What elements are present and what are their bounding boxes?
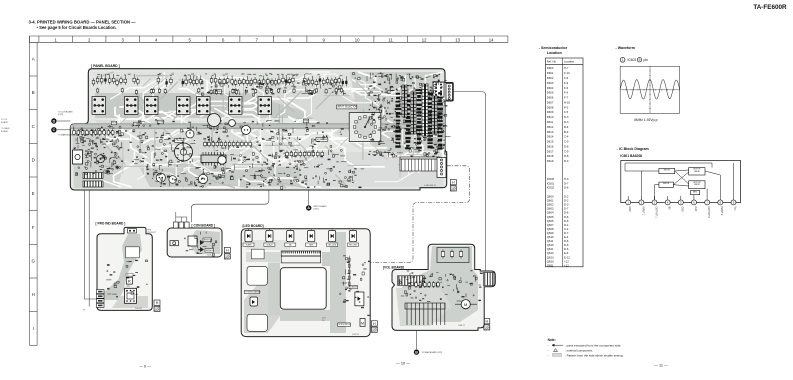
- svg-text:D602: D602: [547, 76, 554, 80]
- row ruler A-I: [29, 36, 37, 345]
- svg-text:D613: D613: [547, 130, 554, 134]
- relay RY651: [125, 288, 137, 303]
- svg-text:D-4: D-4: [564, 223, 569, 227]
- svg-text:Q620: Q620: [547, 243, 554, 247]
- svg-text:D-3: D-3: [564, 120, 569, 124]
- svg-text:C: C: [53, 128, 56, 132]
- svg-text:F: F: [32, 225, 35, 230]
- svg-text:H-10: H-10: [564, 100, 570, 104]
- svg-text:8: 8: [289, 37, 292, 42]
- svg-text:D-7: D-7: [564, 207, 569, 211]
- led D675 REC LINE: [327, 229, 338, 247]
- label sensor: [205, 249, 214, 253]
- svg-text:D604: D604: [547, 86, 554, 90]
- svg-text:TUNER: TUNER: [246, 245, 253, 247]
- svg-text:2: 2: [88, 37, 91, 42]
- ic array column 1: [402, 85, 407, 117]
- vol comb connector: [405, 303, 445, 325]
- svg-text:Q611: Q611: [547, 239, 554, 243]
- svg-text:SW DR: SW DR: [663, 183, 670, 185]
- led D674 TAPE: [306, 229, 317, 247]
- svg-text:- Waveform: - Waveform: [616, 46, 635, 50]
- svg-text:Note:: Note:: [548, 338, 556, 342]
- label SPEAKERS: [316, 138, 328, 142]
- svg-text:[VOL BOARD]: [VOL BOARD]: [383, 265, 404, 269]
- svg-text:P-3: P-3: [564, 105, 569, 109]
- ic array column 2: [411, 92, 416, 134]
- svg-text:Q604: Q604: [547, 211, 554, 215]
- svg-text:B: B: [32, 90, 35, 95]
- svg-text:D-3: D-3: [564, 115, 569, 119]
- svg-text:9: 9: [322, 37, 325, 42]
- led D678 timer: [355, 292, 364, 306]
- label S601: [112, 121, 117, 125]
- svg-text:D-3: D-3: [564, 203, 569, 207]
- node C (to main board): [51, 127, 56, 132]
- svg-text:Q623: Q623: [547, 255, 554, 259]
- svg-text:D614: D614: [547, 135, 554, 139]
- svg-text:IC602: IC602: [547, 186, 555, 190]
- svg-text:4: 4: [155, 37, 158, 42]
- transistor Q601: [97, 155, 105, 163]
- con board copper pattern: [188, 230, 220, 254]
- ic block diagram U-IC601: [621, 161, 741, 219]
- svg-text:E: E: [32, 191, 35, 196]
- electrolytic C612: [218, 156, 226, 164]
- svg-text:M: M: [361, 322, 364, 326]
- capacitor row 2: [97, 88, 343, 96]
- svg-text:I: I: [33, 326, 34, 331]
- svg-text:Q610: Q610: [547, 235, 554, 239]
- svg-text:TO MAIN BOARD: TO MAIN BOARD: [58, 134, 74, 137]
- transistor Q603: [156, 173, 165, 182]
- svg-text:D-8: D-8: [564, 154, 569, 158]
- right dense column cluster: [368, 75, 450, 158]
- panel board copper pattern: [72, 72, 445, 188]
- svg-text:REC LINE: REC LINE: [328, 245, 337, 247]
- svg-text:: parts extracted from the com: : parts extracted from the component sid…: [565, 343, 621, 347]
- top right cluster: [353, 73, 441, 82]
- led D677 power: [250, 297, 258, 306]
- svg-text:-: -: [548, 349, 549, 353]
- resistor row R601-R660: [92, 74, 347, 87]
- svg-text:TO CN: TO CN: [1, 119, 8, 121]
- led D673 MD: [285, 229, 296, 247]
- pro ind small parts: [106, 260, 148, 298]
- label S602: [134, 122, 140, 126]
- transistor Q605: [198, 174, 207, 183]
- led board copper pattern: [244, 232, 346, 333]
- svg-text:7: 7: [255, 37, 258, 42]
- svg-text:[LED BOARD]: [LED BOARD]: [243, 224, 264, 228]
- svg-text:F-9: F-9: [564, 81, 569, 85]
- svg-text:Q606: Q606: [547, 219, 554, 223]
- svg-text:F-6: F-6: [564, 86, 569, 90]
- svg-text:5: 5: [188, 37, 191, 42]
- connector CN606 vertical: [400, 157, 440, 171]
- svg-text:DRIVE: DRIVE: [694, 184, 701, 186]
- svg-text:D603: D603: [547, 81, 554, 85]
- svg-text:INPUT BOARD: INPUT BOARD: [314, 205, 328, 208]
- resistor cluster center: [204, 141, 252, 148]
- svg-text:6: 6: [222, 37, 225, 42]
- svg-text:H: H: [32, 292, 35, 297]
- svg-text:Q650: Q650: [547, 259, 554, 263]
- connector CN604: [83, 181, 103, 187]
- svg-text:(CN?): (CN?): [314, 209, 319, 211]
- pro ind board outline: [97, 227, 152, 310]
- pro ind copper pattern: [104, 234, 148, 308]
- panel board outline: [70, 69, 453, 190]
- svg-text:— 11 —: — 11 —: [654, 364, 668, 368]
- marker H vol board: [484, 319, 490, 324]
- svg-text:[ CON BOARD ]: [ CON BOARD ]: [192, 223, 216, 227]
- con board speckles: [184, 232, 217, 257]
- label PHONES: [175, 139, 184, 143]
- transistor Q606: [208, 114, 221, 127]
- svg-text:B-9: B-9: [564, 125, 569, 129]
- jack J601: [73, 150, 83, 164]
- svg-text:SPK MONITOR: SPK MONITOR: [339, 324, 352, 326]
- svg-text:C-9: C-9: [564, 140, 569, 144]
- svg-text:D618: D618: [547, 154, 554, 158]
- transistor Q604: [169, 176, 177, 184]
- wire panel to PRO IND (1): [84, 190, 96, 299]
- svg-text:Q621: Q621: [547, 247, 554, 251]
- svg-text:D-6: D-6: [564, 219, 569, 223]
- svg-text:1: 1: [54, 37, 57, 42]
- photo coupler IC651: [126, 277, 132, 284]
- switch S605: [197, 97, 211, 115]
- svg-text:1-681-11: 1-681-11: [458, 325, 465, 327]
- wire panel to PRO IND (2): [88, 190, 90, 307]
- svg-text:-: -: [548, 343, 549, 347]
- switch S606: [229, 97, 243, 115]
- svg-text:D-7: D-7: [564, 231, 569, 235]
- svg-text:3-4. PRINTED WIRING BOARD — PA: 3-4. PRINTED WIRING BOARD — PANEL SECTIO…: [29, 20, 137, 25]
- switch S603: [145, 97, 159, 115]
- label IC651: [126, 274, 133, 277]
- svg-text:INPUT SELECTOR: INPUT SELECTOR: [337, 107, 357, 109]
- node A (input board): [308, 190, 310, 205]
- svg-text:D-6: D-6: [564, 215, 569, 219]
- svg-text:E-4: E-4: [564, 235, 569, 239]
- svg-text:Q601: Q601: [547, 199, 554, 203]
- svg-text:D619: D619: [547, 159, 554, 163]
- svg-text:F-6: F-6: [564, 91, 569, 95]
- bottom component cluster: [147, 167, 365, 189]
- motor M681: [461, 300, 470, 309]
- svg-text:: internal component.: : internal component.: [565, 349, 593, 353]
- bus trace band: [71, 124, 446, 129]
- svg-text:IC602: IC602: [628, 58, 637, 62]
- svg-text:DRIVE: DRIVE: [694, 171, 701, 173]
- svg-text:OUTPUT 1: OUTPUT 1: [654, 207, 656, 219]
- svg-text:H: H: [452, 181, 455, 185]
- pro ind hole: [126, 247, 140, 258]
- svg-text:pin: pin: [644, 58, 649, 62]
- con board center parts: [188, 236, 197, 246]
- svg-text:D-7: D-7: [564, 181, 569, 185]
- ic M672: [360, 319, 365, 327]
- svg-text:M: M: [464, 302, 467, 307]
- svg-text:F-9: F-9: [564, 76, 569, 80]
- switch S602: [125, 97, 139, 115]
- label INPUT SELECTOR: [337, 105, 357, 109]
- svg-text:MUT: MUT: [112, 123, 117, 125]
- svg-text:9: 9: [639, 58, 641, 62]
- wire node D to board: [57, 120, 70, 122]
- svg-text:BOARD: BOARD: [1, 121, 9, 124]
- vol connector CN681: [397, 276, 424, 286]
- lcd window: [280, 268, 326, 310]
- svg-text:C-4: C-4: [564, 135, 569, 139]
- svg-text:E-12: E-12: [564, 255, 570, 259]
- svg-text:SENSOR: SENSOR: [206, 250, 215, 252]
- svg-text:D612: D612: [547, 125, 554, 129]
- svg-text:Q603: Q603: [547, 207, 554, 211]
- svg-text:4MHz 1.92Vp-p: 4MHz 1.92Vp-p: [634, 118, 658, 122]
- wire VOL board to node B: [416, 330, 418, 349]
- svg-text:I-12: I-12: [564, 259, 569, 263]
- vol resistor row: [415, 281, 440, 288]
- svg-text:1-4: 1-4: [322, 320, 324, 322]
- led hole 3: [247, 314, 268, 331]
- svg-text:REC LINE: REC LINE: [349, 245, 358, 247]
- svg-text:H: H: [373, 322, 376, 326]
- connector CN605: [446, 84, 453, 101]
- svg-text:REMOTE: REMOTE: [204, 239, 213, 241]
- svg-text:D610: D610: [547, 115, 554, 119]
- vol speckles: [399, 270, 483, 302]
- lcd connector CN672: [281, 251, 320, 256]
- rotary switch S610 input selector: [349, 113, 381, 142]
- svg-text:H: H: [226, 249, 229, 253]
- led hole 1: [251, 249, 264, 259]
- svg-text:F-10: F-10: [564, 71, 570, 75]
- svg-text:13: 13: [455, 37, 460, 42]
- connector CN607: [437, 158, 446, 178]
- svg-text:R: R: [128, 279, 131, 284]
- svg-text:Vcc: Vcc: [733, 207, 735, 212]
- svg-text:F-7: F-7: [564, 96, 569, 100]
- svg-text:Q605: Q605: [547, 215, 554, 219]
- volume pot RV601: [175, 143, 193, 161]
- svg-text:SW DR: SW DR: [664, 170, 671, 172]
- svg-text:D-3: D-3: [564, 159, 569, 163]
- svg-text:14: 14: [489, 37, 494, 42]
- top mid sparse cluster: [201, 80, 346, 96]
- semiconductor location table: [546, 58, 584, 267]
- ic IC603: [201, 155, 226, 163]
- led D672 CD/AUX: [264, 229, 275, 247]
- switch S607: [258, 97, 272, 115]
- label POWER: [304, 119, 309, 123]
- svg-text:1-651-37: 1-651-37: [135, 308, 142, 310]
- led D671 TUNER: [243, 229, 254, 247]
- svg-text:D601: D601: [547, 71, 554, 75]
- svg-text:10: 10: [355, 37, 360, 42]
- switch S601: [92, 97, 106, 115]
- component reference labels row: [97, 73, 342, 76]
- svg-text:1: 1: [622, 58, 624, 62]
- svg-text:H-7: H-7: [564, 66, 569, 70]
- waveform graph IC602 pin9: [620, 66, 679, 113]
- ic column block right: [395, 89, 443, 149]
- svg-text:D-2: D-2: [564, 199, 569, 203]
- led board speckles: [340, 255, 371, 316]
- svg-text:H-3: H-3: [564, 177, 569, 181]
- ir sensor IC671: [170, 241, 178, 246]
- capacitor row mid: [286, 151, 324, 158]
- svg-text:D: D: [53, 119, 56, 123]
- svg-text:[ PANEL BOARD ]: [ PANEL BOARD ]: [91, 64, 120, 68]
- svg-text:D616: D616: [547, 144, 554, 148]
- svg-text:— 9 —: — 9 —: [139, 365, 151, 369]
- svg-text:GND: GND: [681, 207, 683, 212]
- svg-text:Q602: Q602: [547, 203, 554, 207]
- svg-text:2.2A: 2.2A: [694, 207, 697, 212]
- svg-text:CD/AUX: CD/AUX: [266, 244, 273, 247]
- svg-text:H: H: [156, 301, 159, 305]
- con board top pins CN671: [174, 222, 179, 228]
- svg-text:PROTECT: PROTECT: [148, 232, 157, 234]
- svg-text:3: 3: [121, 37, 124, 42]
- svg-text:G: G: [31, 259, 35, 264]
- marker H panel board: [450, 180, 456, 185]
- vol right connector CN682: [484, 273, 495, 286]
- svg-text:TO MAIN: TO MAIN: [1, 127, 10, 130]
- svg-text:TA-FE600R: TA-FE600R: [753, 4, 787, 11]
- svg-text:(CN?): (CN?): [58, 114, 63, 116]
- svg-text:B: B: [415, 350, 418, 354]
- svg-text:Q600: Q600: [547, 195, 554, 199]
- svg-text:Q651: Q651: [547, 263, 554, 267]
- left resistor cluster: [73, 126, 123, 176]
- svg-text:Q622: Q622: [547, 251, 554, 255]
- svg-text:— 10 —: — 10 —: [396, 362, 410, 366]
- svg-text:D-8: D-8: [564, 144, 569, 148]
- svg-text:Q609: Q609: [547, 231, 554, 235]
- svg-text:H: H: [84, 310, 86, 312]
- pro ind top component: [128, 229, 137, 233]
- svg-text:D-2: D-2: [564, 195, 569, 199]
- svg-text:H: H: [485, 320, 488, 324]
- vol board outline: [392, 244, 495, 330]
- svg-text:I-12: I-12: [564, 263, 569, 267]
- svg-text:Location: Location: [564, 60, 575, 64]
- svg-text:B-9: B-9: [564, 130, 569, 134]
- svg-text:D608: D608: [547, 105, 554, 109]
- ic array column 3: [422, 84, 428, 136]
- svg-text:D607: D607: [547, 100, 554, 104]
- svg-text:D609: D609: [547, 110, 554, 114]
- svg-text:A: A: [307, 206, 310, 210]
- svg-text:A: A: [32, 57, 35, 62]
- svg-text:F-5: F-5: [564, 110, 569, 114]
- svg-text:12: 12: [422, 37, 427, 42]
- svg-text:D606: D606: [547, 96, 554, 100]
- wire panel to CON board: [191, 190, 269, 222]
- column ruler 1-14: [29, 36, 508, 42]
- svg-text:INPUT 1: INPUT 1: [641, 207, 643, 216]
- marker H led board: [371, 321, 377, 326]
- svg-text:D605: D605: [547, 91, 554, 95]
- marker H pro ind board: [154, 300, 160, 305]
- svg-text:BOARD: BOARD: [1, 130, 9, 133]
- svg-text:D: D: [32, 158, 35, 163]
- svg-text:D-6: D-6: [564, 243, 569, 247]
- svg-text:D-6: D-6: [564, 211, 569, 215]
- svg-text:PHONES: PHONES: [175, 140, 185, 142]
- svg-text:IC601: IC601: [547, 181, 555, 185]
- svg-text:D-6: D-6: [564, 239, 569, 243]
- label POWER SW: [214, 90, 222, 94]
- led board outline: [241, 229, 370, 337]
- svg-text:D-6: D-6: [564, 186, 569, 190]
- svg-text:C-9: C-9: [564, 149, 569, 153]
- ic array column 4: [432, 96, 437, 134]
- vol board copper pattern: [396, 246, 478, 326]
- svg-text:D600: D600: [547, 66, 554, 70]
- connector CN608: [433, 82, 444, 97]
- svg-text:Q607: Q607: [547, 223, 554, 227]
- svg-text:TO MAIN BOARD (CN?): TO MAIN BOARD (CN?): [422, 351, 443, 354]
- svg-text:- Semiconductor: - Semiconductor: [539, 46, 568, 50]
- transistor Q607: [186, 130, 194, 138]
- svg-text:-: -: [548, 354, 549, 358]
- vol top cluster (motor drive): [437, 248, 469, 263]
- svg-text:D-6: D-6: [564, 247, 569, 251]
- svg-text:C: C: [32, 124, 35, 129]
- svg-text:INPUT 2: INPUT 2: [720, 207, 722, 216]
- label power standby: [245, 290, 260, 293]
- svg-text:POWER/STANDBY: POWER/STANDBY: [245, 290, 261, 293]
- svg-text:E-6: E-6: [564, 251, 569, 255]
- cap cluster left: [73, 129, 114, 136]
- svg-text:D615: D615: [547, 140, 554, 144]
- node D (to CON board): [51, 118, 56, 123]
- svg-text:SPEAKERS: SPEAKERS: [317, 138, 329, 141]
- marker H con board: [224, 248, 230, 253]
- svg-text:: Pattern from the side which: : Pattern from the side which enable see…: [565, 354, 624, 358]
- transistor Q608: [242, 126, 251, 135]
- svg-text:D611: D611: [547, 120, 554, 124]
- led D676 REC LINE: [348, 229, 359, 247]
- svg-text:(W601): (W601): [305, 74, 312, 76]
- svg-text:GND: GND: [628, 207, 630, 212]
- connector CN603: [83, 173, 103, 179]
- svg-text:OUTPUT 2: OUTPUT 2: [707, 207, 709, 219]
- led resistor col: [349, 256, 351, 287]
- svg-text:IC600: IC600: [547, 177, 555, 181]
- label S603: [158, 120, 164, 124]
- waveform callout: [620, 57, 625, 62]
- svg-text:[ PRO IND BOARD ]: [ PRO IND BOARD ]: [96, 222, 126, 226]
- svg-text:IC601 BA6208: IC601 BA6208: [620, 154, 642, 158]
- wire panel to VOL right tab: [453, 92, 485, 271]
- label remote: [203, 238, 212, 242]
- svg-text:Ref. No.: Ref. No.: [547, 60, 557, 64]
- con board outline: [167, 228, 222, 257]
- svg-text:C-4: C-4: [564, 227, 569, 231]
- wire node C to board: [57, 129, 70, 131]
- connector CN651: [97, 290, 105, 294]
- svg-text:• See page 5 for Circuit Board: • See page 5 for Circuit Boards Location…: [37, 25, 117, 30]
- label led monitor: [338, 323, 351, 326]
- svg-text:1-671-23: 1-671-23: [207, 254, 214, 256]
- svg-text:11: 11: [388, 37, 393, 42]
